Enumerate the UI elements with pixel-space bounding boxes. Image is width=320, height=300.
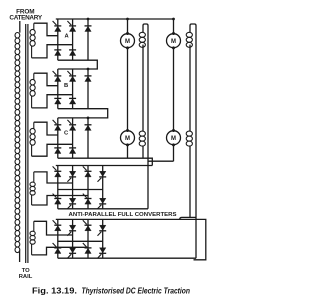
- svg-text:B: B: [64, 83, 68, 89]
- wire reactor L return line: [147, 26, 149, 209]
- node positive bus / motor column 1: [126, 18, 129, 21]
- node converter A positive rail junction: [87, 18, 90, 21]
- transformer secondary winding C: [30, 122, 35, 156]
- motor M1: [121, 34, 135, 48]
- diode A1: [54, 49, 61, 51]
- wire reactor R return line: [195, 26, 197, 259]
- motor M1 terminals: [126, 32, 129, 35]
- freewheel diode leg A wire: [87, 19, 89, 60]
- converter E leg 4 wire: [102, 219, 104, 258]
- wire secondary A top terminal to AC input 1: [34, 23, 58, 36]
- smoothing reactor R coil 1: [186, 32, 192, 47]
- diode B3: [85, 75, 92, 77]
- wire secondary D top terminal to AC input 1: [34, 172, 73, 183]
- converter E leg 1 wire: [57, 219, 59, 258]
- svg-text:A: A: [65, 33, 70, 39]
- converter E leg 3 wire: [87, 219, 89, 258]
- converter D leg 1 wire: [57, 166, 59, 209]
- svg-text:ANTI-PARALLEL FULL CONVERTERS: ANTI-PARALLEL FULL CONVERTERS: [69, 212, 178, 218]
- wire catenary feed: [19, 21, 21, 33]
- wire secondary E top terminal to AC input 1: [34, 221, 73, 235]
- converter D leg 3 wire: [87, 166, 89, 209]
- svg-text:RAIL: RAIL: [19, 274, 33, 280]
- transformer core: [26, 24, 28, 263]
- wire reactor L coil line bottom: [142, 146, 144, 158]
- transformer secondary winding A: [30, 23, 35, 58]
- thyristor E4 upper (reverse): [98, 232, 102, 236]
- smoothing reactor R hairpin top: [190, 24, 196, 32]
- node positive bus / motor column 2: [172, 18, 175, 21]
- converter A leg 2 wire: [72, 19, 74, 60]
- wire reactor L mid: [142, 45, 144, 132]
- wire secondary D bottom terminal to AC input 2: [32, 196, 88, 206]
- wire secondary B top terminal to AC input 1: [34, 73, 58, 86]
- wire motor column 2: [173, 19, 175, 161]
- thyristor E1 lower (forward): [53, 243, 57, 247]
- thyristor D3 upper (forward): [83, 166, 87, 170]
- motor M2 terminals: [172, 32, 175, 35]
- wire reactor R mid: [189, 45, 191, 132]
- wire converter A bottom rail to converter B top rail (step): [58, 60, 98, 69]
- converter D leg 4 wire: [102, 166, 104, 209]
- smoothing reactor L coil 1: [139, 32, 145, 47]
- diode B2: [69, 97, 76, 99]
- diode C2: [69, 147, 76, 149]
- converter E top rail loop to bottom right: [56, 219, 206, 259]
- wire reactor R coil line bottom: [180, 146, 196, 220]
- diode C1: [54, 147, 61, 149]
- svg-text:TO: TO: [22, 268, 30, 274]
- converter B leg 1 wire: [57, 69, 59, 109]
- thyristor E3 upper (forward): [83, 220, 87, 224]
- thyristor B2: [67, 71, 71, 75]
- thyristor B1: [53, 71, 57, 75]
- converter E mid AC line: [58, 240, 103, 242]
- thyristor C1: [53, 120, 57, 124]
- svg-text:Thyristorised DC Electric Trac: Thyristorised DC Electric Traction: [82, 287, 191, 296]
- wire motor column 2 return to reactor line: [148, 160, 174, 162]
- thyristor C2: [67, 120, 71, 124]
- wire primary to rail: [19, 251, 21, 262]
- converter A leg 1 wire: [57, 19, 59, 60]
- thyristor E4 lower (reverse): [98, 254, 102, 258]
- transformer secondary winding D: [30, 172, 35, 205]
- converter D mid AC line: [58, 189, 103, 191]
- wire secondary E bottom terminal to AC input 2: [32, 247, 88, 255]
- thyristor D4 lower (reverse): [98, 205, 102, 209]
- smoothing reactor R coil 2: [186, 131, 192, 146]
- svg-text:M: M: [125, 136, 130, 142]
- diode C3: [85, 124, 92, 126]
- transformer secondary winding B: [30, 73, 35, 108]
- converter C leg 2 wire: [72, 118, 74, 158]
- thyristor D1 upper (forward): [53, 166, 57, 170]
- node converter B positive rail junction: [87, 68, 90, 71]
- wire secondary C bottom terminal to AC input 2: [32, 144, 73, 156]
- motor M2: [167, 34, 181, 48]
- motor M3 terminals: [126, 129, 129, 132]
- svg-text:M: M: [171, 136, 176, 142]
- thyristor D1 lower (forward): [53, 194, 57, 198]
- thyristor D2 lower (reverse): [67, 205, 71, 209]
- thyristor D4 upper (reverse): [98, 178, 102, 182]
- converter E bottom rail: [58, 257, 196, 259]
- svg-text:C: C: [64, 131, 69, 137]
- thyristor A1: [53, 21, 57, 25]
- thyristor A2: [67, 21, 71, 25]
- thyristor E2 lower (reverse): [67, 254, 71, 258]
- wire converter B bottom rail to converter C top rail (step): [58, 109, 108, 118]
- transformer secondary winding E: [30, 221, 35, 255]
- diode A2: [69, 49, 76, 51]
- converter C leg 1 wire: [57, 118, 59, 158]
- transformer primary winding: [15, 33, 20, 253]
- freewheel diode leg C wire: [87, 118, 89, 158]
- motor M3: [121, 131, 135, 145]
- motor M4: [167, 131, 181, 145]
- DC positive bus (converter A top rail to motors): [56, 18, 174, 20]
- node converter C positive rail junction: [87, 117, 90, 120]
- wire secondary B bottom terminal to AC input 2: [32, 95, 73, 108]
- converter D top rail: [56, 165, 153, 167]
- thyristor D3 lower (forward): [83, 194, 87, 198]
- svg-text:Fig. 13.19.: Fig. 13.19.: [32, 287, 77, 296]
- converter D bottom rail to smoothing reactor return: [58, 208, 148, 210]
- freewheel diode leg B wire: [87, 69, 89, 109]
- thyristor E1 upper (forward): [53, 220, 57, 224]
- diode A3: [85, 25, 92, 27]
- converter B leg 2 wire: [72, 69, 74, 109]
- wire motor column 1: [127, 19, 129, 158]
- wire secondary A bottom terminal to AC input 2: [32, 45, 73, 58]
- converter D leg 2 wire: [72, 166, 74, 209]
- thyristor E2 upper (reverse): [67, 232, 71, 236]
- converter E leg 2 wire: [72, 219, 74, 258]
- svg-text:M: M: [171, 39, 176, 45]
- wire secondary C top terminal to AC input 1: [34, 122, 58, 135]
- thyristor D2 upper (reverse): [67, 178, 71, 182]
- svg-text:M: M: [125, 39, 130, 45]
- wire converter C bottom rail / motor group 1 return / step to converter D: [58, 158, 153, 165]
- smoothing reactor L hairpin top: [143, 24, 148, 32]
- diode B1: [54, 97, 61, 99]
- thyristor E3 lower (forward): [83, 243, 87, 247]
- svg-text:CATENARY: CATENARY: [9, 15, 42, 22]
- smoothing reactor L coil 2: [139, 131, 145, 146]
- motor M4 terminals: [172, 129, 175, 132]
